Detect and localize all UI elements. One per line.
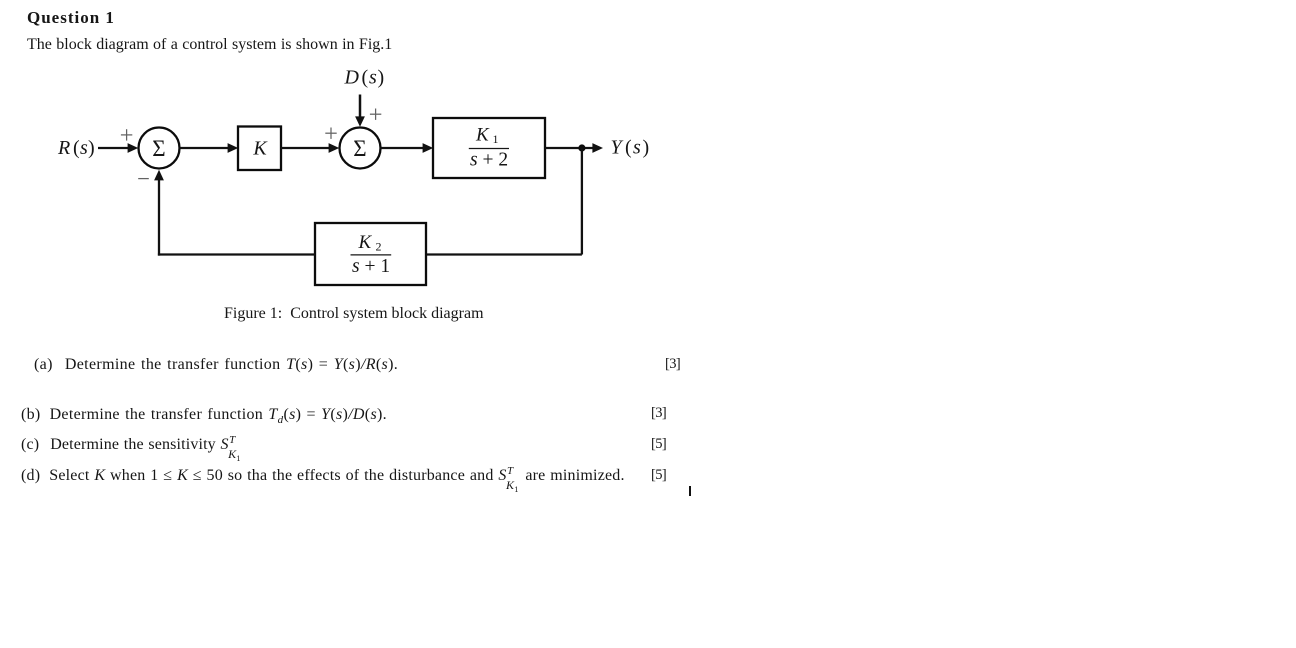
wire D(s) down into S2 [359, 95, 362, 119]
svg-text:Σ: Σ [353, 136, 366, 161]
mark [3] for (b) [651, 406, 666, 421]
summing junction S2 (Sigma) [340, 128, 381, 169]
svg-text:K: K [252, 138, 268, 160]
arrowhead into S1 bottom [154, 170, 164, 181]
svg-text:): ) [643, 137, 650, 159]
svg-text:K: K [358, 232, 373, 253]
node D(s) disturbance label [344, 66, 385, 88]
block K2: K2/(s+1) [315, 223, 426, 285]
svg-text:s: s [633, 137, 641, 159]
svg-text:s: s [369, 66, 377, 88]
plus sign at S1 left input [121, 129, 132, 140]
svg-text:): ) [88, 137, 95, 159]
wire K1 to output junction [545, 147, 594, 149]
arrowhead to Y(s) [592, 143, 603, 153]
junction dot [578, 144, 585, 151]
wire R(s) to summing junction S1 [98, 147, 129, 149]
arrowhead into S2 top [355, 116, 365, 126]
wire feedback right segment [426, 253, 582, 255]
svg-text:s + 1: s + 1 [352, 256, 390, 277]
mark [3] for (a) [665, 357, 680, 372]
svg-text:K: K [475, 125, 490, 146]
wire S1 to block K [180, 147, 230, 149]
svg-text:s + 2: s + 2 [470, 150, 508, 171]
wire junction down [581, 148, 583, 255]
plus sign at S2 top input [370, 109, 381, 120]
text cursor [689, 486, 691, 496]
wire S2 to block K1 [381, 147, 425, 149]
svg-text:(: ( [73, 137, 80, 159]
item (d) [21, 468, 625, 484]
block K1: K1/(s+2) [433, 118, 545, 178]
plus sign at S2 left input [325, 128, 336, 139]
caption Figure 1 [224, 306, 484, 322]
wire K to summing junction S2 [281, 147, 330, 149]
node R(s) input label [57, 137, 95, 159]
svg-text:2: 2 [376, 240, 382, 254]
svg-text:s: s [80, 137, 88, 159]
svg-text:(: ( [362, 66, 369, 88]
item (a) [34, 357, 398, 373]
summing junction S1 (Sigma) [139, 128, 180, 169]
block K [238, 127, 281, 171]
minus sign at S1 bottom input [138, 178, 149, 180]
arrowhead into K [228, 143, 239, 153]
svg-text:R: R [57, 137, 70, 159]
mark [5] for (c) [651, 437, 666, 452]
node Y(s) output label [611, 137, 650, 159]
paragraph intro [27, 37, 392, 53]
mark [5] for (d) [651, 468, 666, 483]
wire feedback left segment [158, 253, 315, 255]
svg-text:D: D [344, 66, 360, 88]
heading Question 1 [27, 9, 115, 26]
item (b) [21, 407, 387, 426]
item (c) [21, 437, 243, 453]
svg-text:Σ: Σ [152, 136, 165, 161]
wire feedback up into S1 [158, 179, 160, 256]
svg-text:): ) [378, 66, 385, 88]
arrowhead into S1 [128, 143, 139, 153]
arrowhead into S2 [329, 143, 340, 153]
svg-text:Y: Y [611, 137, 624, 159]
svg-text:1: 1 [493, 132, 499, 146]
svg-text:(: ( [625, 137, 632, 159]
arrowhead into K1 [423, 143, 434, 153]
